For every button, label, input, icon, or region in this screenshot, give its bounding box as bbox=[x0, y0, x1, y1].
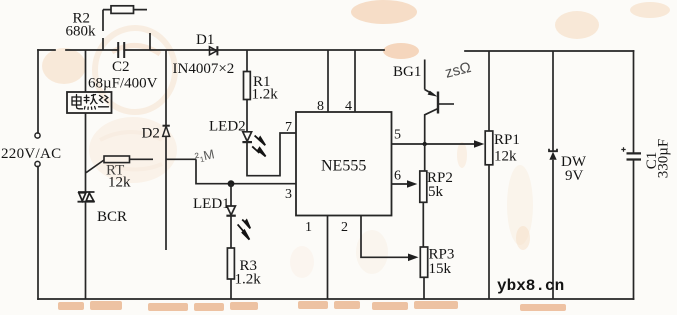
wire: bottom rail bbox=[38, 298, 634, 300]
svg-text:1.2k: 1.2k bbox=[252, 87, 279, 103]
LED1 bbox=[226, 184, 235, 248]
svg-text:68µF/400V: 68µF/400V bbox=[88, 76, 158, 92]
wire pin 8 bbox=[327, 50, 329, 112]
heater rail wire bbox=[85, 50, 87, 192]
diode D1 bbox=[210, 46, 218, 55]
wire pin 1 bbox=[327, 216, 329, 300]
svg-text:680k: 680k bbox=[66, 24, 97, 40]
wire: top rail right segment bbox=[465, 50, 634, 52]
wire: RT to pin3 bbox=[196, 159, 296, 183]
node junction LED1 tap bbox=[228, 180, 235, 187]
arrowhead pin5 to RP1 wiper bbox=[474, 140, 484, 148]
svg-text:RP1: RP1 bbox=[494, 132, 520, 148]
wire pin 6 to RP2 bbox=[392, 183, 411, 185]
capacitor C2 bbox=[118, 42, 124, 58]
svg-text:8: 8 bbox=[317, 99, 324, 114]
wire pin 2 to RP3 bbox=[361, 216, 411, 258]
capacitor C1 bbox=[627, 153, 642, 159]
wire: top rail middle segment bbox=[124, 49, 384, 51]
terminal upper 220V bbox=[35, 133, 40, 138]
IC NE555 box bbox=[296, 112, 392, 216]
wire: top rail left segment bbox=[38, 49, 118, 51]
potentiometer RP2 bbox=[420, 171, 427, 247]
svg-text:5k: 5k bbox=[428, 184, 444, 200]
heater box DianReSi bbox=[67, 92, 112, 113]
svg-text:D2: D2 bbox=[142, 126, 160, 142]
LED2 bbox=[242, 132, 252, 142]
svg-text:12k: 12k bbox=[494, 149, 517, 165]
arrowhead pin6 to RP2 wiper bbox=[407, 180, 417, 188]
wire pin 4 bbox=[354, 50, 356, 112]
resistor R1 bbox=[244, 50, 251, 132]
thermistor RT bbox=[86, 156, 196, 173]
svg-text:3: 3 bbox=[285, 187, 292, 202]
svg-text:IN4007×2: IN4007×2 bbox=[173, 61, 235, 77]
watermark seal mid-left bbox=[89, 117, 177, 183]
arrowhead pin2 to RP3 wiper bbox=[408, 254, 419, 262]
svg-text:5: 5 bbox=[394, 128, 401, 143]
svg-text:12k: 12k bbox=[108, 175, 131, 191]
svg-text:ybx8.cn: ybx8.cn bbox=[497, 277, 564, 295]
resistor R2 bbox=[103, 6, 150, 50]
potentiometer RP1 bbox=[485, 51, 493, 299]
node junction pin5 rail bbox=[423, 142, 427, 146]
potentiometer RP3 bbox=[420, 247, 427, 299]
svg-text:C2: C2 bbox=[112, 59, 130, 75]
wire: LED2 to pin7 bbox=[247, 133, 296, 176]
wire BG1 collector to RP2 bbox=[424, 144, 426, 171]
C1 polarity plus bbox=[621, 147, 625, 151]
wire: right rail lower bbox=[633, 160, 635, 299]
watermark top-right bbox=[555, 11, 599, 39]
triac BCR bbox=[78, 192, 95, 299]
wire pin 5 to RP1 bbox=[392, 143, 478, 145]
wire: left rail lower bbox=[37, 167, 39, 300]
svg-text:BG1: BG1 bbox=[393, 64, 421, 80]
svg-text:15k: 15k bbox=[429, 261, 452, 277]
diode D2 bbox=[163, 50, 170, 250]
resistor R3 bbox=[227, 248, 234, 299]
LED2 emission arrows bbox=[252, 136, 265, 157]
svg-text:NE555: NE555 bbox=[321, 158, 366, 175]
terminal lower 220V bbox=[35, 161, 40, 166]
svg-text:1: 1 bbox=[305, 220, 312, 235]
transistor BG1 bbox=[425, 60, 454, 145]
svg-text:9V: 9V bbox=[565, 168, 584, 184]
watermark top-middle bbox=[351, 0, 417, 24]
svg-text:4: 4 bbox=[345, 99, 352, 114]
zener diode DW bbox=[549, 51, 557, 299]
svg-text:1.2k: 1.2k bbox=[235, 272, 262, 288]
svg-text:2: 2 bbox=[341, 220, 348, 235]
watermark bottom strip bbox=[58, 301, 566, 311]
svg-text:220V/AC: 220V/AC bbox=[1, 146, 61, 162]
svg-text:BCR: BCR bbox=[97, 209, 127, 225]
svg-text:330µF: 330µF bbox=[656, 139, 672, 179]
svg-text:6: 6 bbox=[394, 169, 401, 184]
svg-text:LED1: LED1 bbox=[193, 196, 230, 212]
watermark seal top-left bbox=[42, 28, 175, 112]
svg-text:LED2: LED2 bbox=[209, 119, 246, 135]
svg-text:7: 7 bbox=[285, 120, 292, 135]
LED1 emission arrows bbox=[238, 220, 251, 240]
wire: left rail upper bbox=[37, 50, 39, 133]
svg-text:D1: D1 bbox=[196, 32, 214, 48]
wire: right rail upper bbox=[633, 51, 635, 153]
watermark side smudges bbox=[457, 142, 467, 168]
